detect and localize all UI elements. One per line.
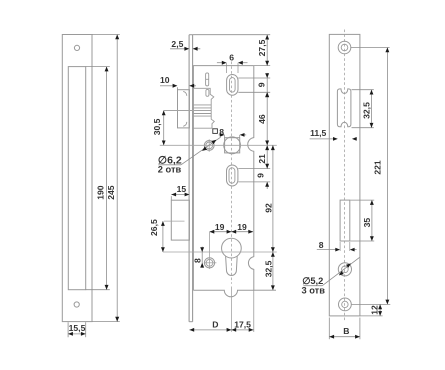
small slot lower bbox=[206, 89, 209, 96]
fixing hole 1 (d6.2) bbox=[204, 141, 214, 151]
svg-text:46: 46 bbox=[257, 114, 267, 124]
svg-text:15: 15 bbox=[177, 184, 187, 194]
latch mechanism outline inside body bbox=[193, 88, 214, 128]
dim 6 arrows bbox=[217, 62, 224, 64]
extension lines for D/17,5 bbox=[253, 290, 255, 332]
dim 190 line bbox=[106, 67, 108, 290]
dim 245 extension lines bbox=[92, 34, 120, 36]
latch centerline bbox=[164, 110, 212, 112]
dim 2,5 leader bbox=[170, 48, 186, 50]
left view: faceplate recess inner outline bbox=[68, 67, 85, 290]
strip top extension line bbox=[193, 34, 271, 36]
d6,2 leader diagonal bbox=[181, 137, 221, 165]
deadbolt centerline bbox=[164, 220, 185, 222]
svg-text:8: 8 bbox=[192, 258, 202, 263]
latch spring bars bbox=[193, 104, 211, 106]
svg-text:21: 21 bbox=[257, 154, 267, 164]
svg-text:190: 190 bbox=[95, 185, 105, 200]
dim 245 line bbox=[116, 35, 118, 322]
svg-text:32,5: 32,5 bbox=[362, 102, 372, 119]
svg-text:32,5: 32,5 bbox=[264, 260, 274, 277]
svg-text:35: 35 bbox=[362, 218, 372, 228]
right view bottom hole bbox=[339, 298, 352, 311]
dim 15.5 line bbox=[68, 333, 86, 335]
right view plate outline bbox=[329, 34, 360, 316]
svg-text:2 отв: 2 отв bbox=[158, 165, 182, 175]
d6,2 leader underline bbox=[158, 164, 181, 166]
right view hole 3 (d5,2 leader) bbox=[338, 263, 351, 276]
svg-text:9: 9 bbox=[257, 82, 267, 87]
faceplate strip (edge-on) bbox=[188, 35, 190, 322]
fixing hole 2 (d6.2) bbox=[204, 258, 214, 268]
svg-text:11,5: 11,5 bbox=[310, 128, 326, 138]
body bottom edge with central notch bbox=[193, 290, 253, 297]
svg-text:6: 6 bbox=[229, 52, 234, 62]
latch bolt bevel arc bottom bbox=[183, 122, 187, 126]
dim 10 leader/arrows bbox=[160, 85, 174, 87]
top rivet slot outer bbox=[227, 75, 238, 96]
right view dashed centerline bbox=[344, 30, 346, 321]
svg-text:19: 19 bbox=[237, 222, 247, 232]
svg-text:D: D bbox=[212, 319, 218, 329]
square follower hole bbox=[225, 138, 240, 153]
body right edge with two semicircular notches bbox=[248, 66, 254, 291]
dim 190 extension lines bbox=[86, 66, 110, 68]
dim square-8 arrows bbox=[219, 134, 222, 136]
left view: top screw hole bbox=[74, 45, 79, 50]
svg-text:∅5,2: ∅5,2 bbox=[302, 276, 323, 286]
latch bolt (protruding) bbox=[178, 90, 190, 128]
dim 32,5 (right view) bbox=[352, 89, 374, 91]
right view slot 2 bbox=[340, 200, 350, 241]
dim 26,5 line bbox=[162, 221, 164, 252]
deadbolt bbox=[171, 200, 189, 240]
bottom rivet slot outer bbox=[227, 165, 238, 186]
svg-text:8: 8 bbox=[319, 240, 324, 250]
dim square-8 symbol and text bbox=[213, 129, 218, 134]
right dim column: extension lines for ovals bbox=[238, 77, 270, 79]
centerline extension below body bbox=[230, 287, 232, 332]
left view: bottom screw hole bbox=[74, 302, 79, 307]
cylinder horizontal centerline bbox=[163, 251, 277, 253]
svg-text:15,5: 15,5 bbox=[69, 323, 86, 333]
left view: faceplate outer outline bbox=[62, 35, 92, 322]
vertical centerline (dashed) bbox=[230, 62, 232, 284]
svg-text:3 отв: 3 отв bbox=[301, 286, 325, 296]
svg-text:26,5: 26,5 bbox=[149, 219, 159, 236]
svg-text:245: 245 bbox=[106, 185, 116, 200]
svg-text:12: 12 bbox=[370, 305, 380, 315]
svg-text:B: B bbox=[343, 326, 349, 336]
follower boss circle bbox=[224, 137, 241, 154]
body top extension line bbox=[254, 65, 270, 67]
svg-text:27,5: 27,5 bbox=[257, 39, 267, 56]
right view slot 1 (wavy ends) bbox=[337, 89, 351, 127]
svg-text:17,5: 17,5 bbox=[234, 319, 251, 329]
svg-text:92: 92 bbox=[264, 203, 274, 213]
svg-text:9: 9 bbox=[255, 173, 265, 178]
right view top hole bbox=[338, 41, 351, 54]
svg-text:30,5: 30,5 bbox=[152, 118, 162, 135]
dim 221 bbox=[351, 47, 390, 49]
latch bolt bevel arc top bbox=[183, 91, 187, 95]
bottom rivet slot inner bbox=[229, 168, 235, 183]
main horizontal centerline bbox=[160, 144, 277, 146]
dim 35 bbox=[350, 199, 374, 201]
svg-text:221: 221 bbox=[373, 160, 383, 175]
svg-text:2,5: 2,5 bbox=[171, 39, 183, 49]
dim 30,5 line bbox=[163, 111, 165, 146]
svg-text:19: 19 bbox=[215, 222, 225, 232]
dim 15 line bbox=[171, 194, 189, 196]
dim 15.5 extension lines bbox=[67, 322, 69, 337]
body bottom extension bbox=[254, 289, 276, 291]
small slot upper (with mid line) bbox=[206, 73, 209, 86]
lock body outline bbox=[192, 66, 194, 291]
euro cylinder hole bbox=[222, 238, 242, 258]
plate bottom extension bbox=[360, 315, 383, 317]
top rivet slot inner bbox=[230, 78, 236, 93]
svg-text:10: 10 bbox=[160, 75, 170, 85]
d5,2 leader diagonal bbox=[322, 257, 359, 285]
hole2 vertical extension to 19-dim bbox=[209, 232, 211, 269]
